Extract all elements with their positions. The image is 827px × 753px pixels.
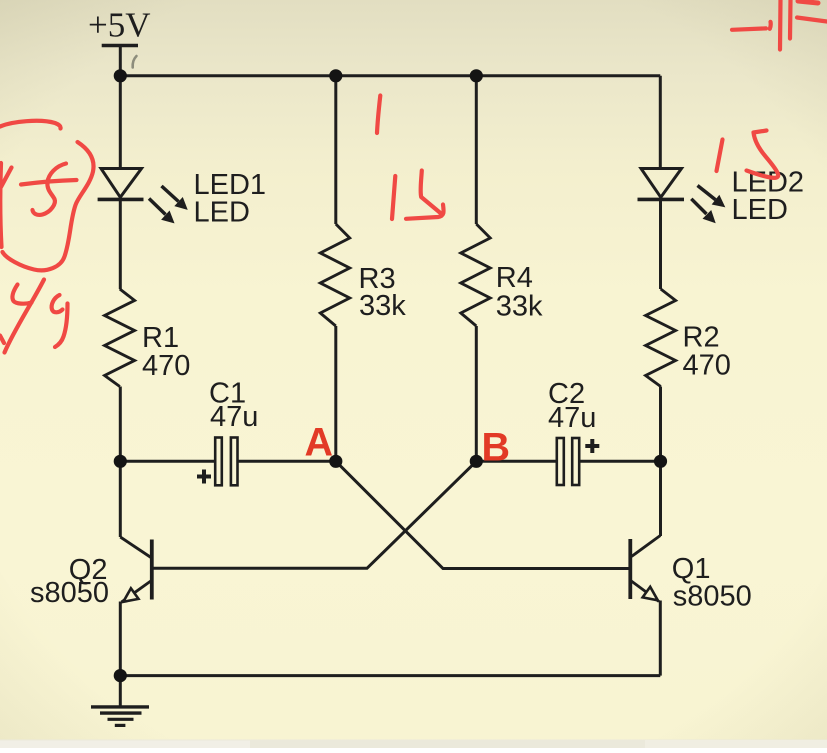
svg-text:LED: LED <box>194 196 250 228</box>
svg-text:LED: LED <box>732 194 788 226</box>
pencil mark near +5V <box>133 56 137 68</box>
node ground junction <box>114 669 127 682</box>
transistor Q1 collector lead <box>632 536 661 557</box>
svg-text:+5V: +5V <box>88 6 151 45</box>
svg-text:R4: R4 <box>496 262 533 294</box>
svg-text:A: A <box>305 421 334 465</box>
svg-text:s8050: s8050 <box>30 577 109 609</box>
red annotation "4" of 49 <box>12 285 31 304</box>
node B junction <box>470 455 483 468</box>
wire LED2 cathode to R2 <box>659 200 662 289</box>
node A junction <box>329 455 342 468</box>
wire node A to Q1 base diagonal <box>336 461 629 568</box>
wire C2 to right node <box>579 460 660 463</box>
ground lead <box>119 676 122 706</box>
wire C1 node to Q2 collector <box>119 461 122 537</box>
wire Q2 emitter down <box>119 602 122 676</box>
wire bottom rail <box>120 674 660 677</box>
wire node B to C2 <box>476 460 556 463</box>
wire C2 node to Q1 collector <box>659 461 662 536</box>
svg-text:33k: 33k <box>359 290 406 322</box>
wire top rail <box>120 74 660 77</box>
resistor R4 <box>461 224 490 326</box>
transistor Q1 emitter arrow <box>643 587 658 601</box>
red annotation battery sketch top-right <box>732 22 771 30</box>
red annotation "9" of 49 <box>52 295 63 312</box>
capacitor C2 <box>557 438 564 485</box>
wire R4 to node B <box>475 326 478 461</box>
resistor R1 <box>105 289 135 387</box>
resistor R2 <box>646 289 676 387</box>
power +5V supply bar <box>102 44 138 48</box>
wire C1 to node A <box>238 460 336 463</box>
LED LED2 <box>641 169 682 198</box>
ground symbol <box>91 705 149 708</box>
wire +5V lead <box>119 46 122 76</box>
node R3 top junction <box>329 69 342 82</box>
C1 polarity + <box>197 470 211 484</box>
wire R3 branch top <box>334 76 337 224</box>
node C1-left junction <box>114 455 127 468</box>
resistor R3 <box>320 224 349 326</box>
transistor Q2 emitter lead <box>122 581 152 603</box>
wire right branch to LED2 anode <box>659 76 662 168</box>
svg-text:s8050: s8050 <box>673 580 752 612</box>
transistor Q2 emitter arrow <box>123 588 138 602</box>
LED2 light arrows <box>691 186 724 223</box>
red annotation "15" right <box>717 140 723 172</box>
C2 polarity + <box>585 439 599 453</box>
wire R3 to node A <box>334 326 337 461</box>
transistor Q2 base bar <box>150 540 154 600</box>
wire left branch to LED1 anode <box>119 76 122 168</box>
node top-left junction <box>114 69 127 82</box>
red annotation "15" center <box>392 176 395 219</box>
svg-text:47u: 47u <box>210 401 258 433</box>
wire R4 branch top <box>475 76 478 224</box>
LED1 light arrows <box>149 186 187 222</box>
wire R1 to C1 node <box>119 387 122 462</box>
capacitor C1 <box>215 438 222 486</box>
wire Q1 emitter down <box>659 601 662 676</box>
transistor Q2 collector lead <box>120 537 151 558</box>
node R4 top junction <box>470 69 483 82</box>
node C2-right junction <box>654 455 667 468</box>
svg-text:470: 470 <box>142 350 190 382</box>
wire R2 to C2 node <box>659 387 662 462</box>
svg-text:470: 470 <box>683 350 731 382</box>
transistor Q1 emitter lead <box>631 581 659 602</box>
svg-text:33k: 33k <box>496 291 543 323</box>
wire node B to Q2 base diagonal <box>154 461 477 568</box>
red annotation scribble blob left <box>0 121 61 129</box>
red annotation "5" in blob <box>33 164 67 215</box>
svg-text:47u: 47u <box>548 402 596 434</box>
red annotation bar in blob <box>21 180 77 185</box>
svg-text:B: B <box>482 426 511 470</box>
red annotation stroke "1" top-center <box>377 96 380 134</box>
wire C1 left lead <box>120 460 215 463</box>
transistor Q1 base bar <box>628 539 632 599</box>
red annotation "1" in blob <box>1 168 12 188</box>
wire LED1 cathode to R1 <box>119 200 122 289</box>
LED LED1 <box>101 169 142 198</box>
